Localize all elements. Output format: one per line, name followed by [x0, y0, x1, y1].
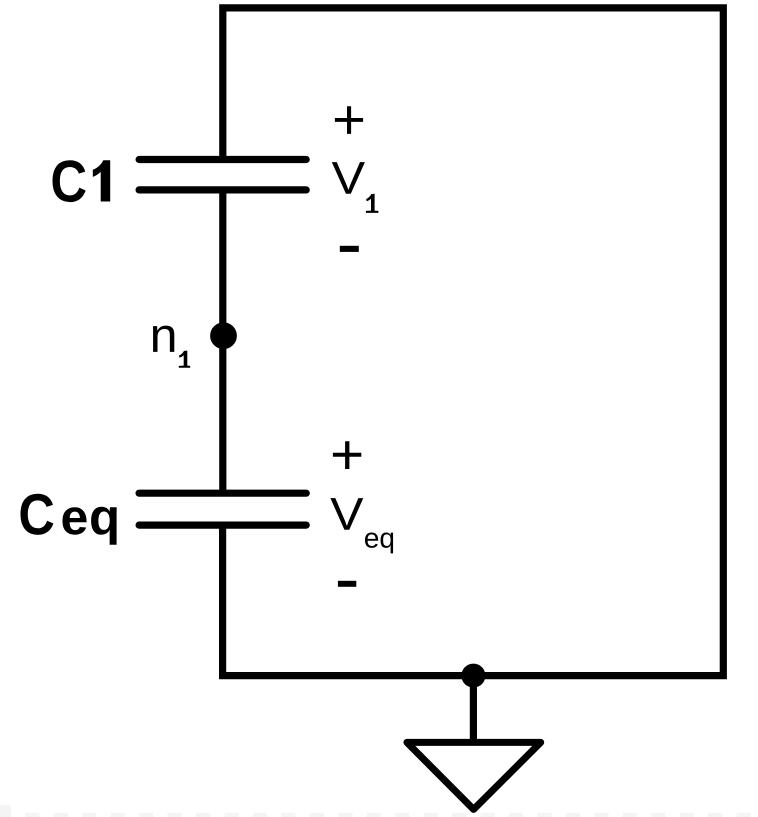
node n1 junction dot [210, 322, 237, 349]
ground symbol triangle [407, 742, 541, 809]
plus sign for V1 [335, 106, 363, 134]
label Ceq : letter q [91, 507, 117, 545]
wire: ground stub [470, 676, 477, 740]
label V1 : letter V [332, 162, 365, 194]
label Ceq : letter e [62, 507, 86, 534]
bottom junction dot (ground node) [461, 664, 485, 688]
wire: main loop (left up, top, right down, bottom) [223, 8, 724, 676]
transparency checker row [25, 813, 750, 817]
label C1 : letter C [52, 160, 85, 202]
capacitor C1 top plate [139, 156, 306, 163]
label V1 : subscript 1 (serif style) [366, 194, 379, 213]
label C1 : digit 1 (Arial-bold style, no foot) [93, 160, 110, 201]
capacitor Ceq top plate [139, 490, 306, 497]
minus sign for Veq [338, 581, 356, 587]
wire: between C1 and Ceq [219, 189, 226, 494]
label Ceq : letter C [20, 494, 53, 535]
label Veq subscript q [381, 533, 394, 554]
capacitor C1 bottom plate [139, 186, 306, 193]
plus sign for Veq [333, 441, 361, 469]
transparency checker corner square [0, 805, 11, 817]
label Veq : letter V [330, 498, 363, 530]
label Veq : subscript eq [365, 533, 378, 548]
node label n [153, 326, 174, 352]
node label subscript 1 (serif style) [179, 351, 190, 368]
capacitor Ceq bottom plate [139, 521, 306, 528]
minus sign for V1 [340, 246, 359, 252]
